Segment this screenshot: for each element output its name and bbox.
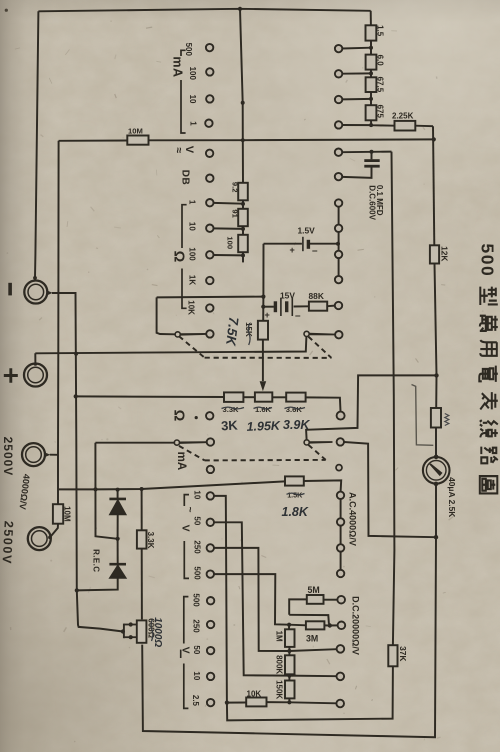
wire 675 bottom to 2.25K	[371, 120, 395, 125]
svg-text:150K: 150K	[275, 680, 284, 699]
diode D2 triangle	[110, 566, 125, 578]
svg-text:1000Ω: 1000Ω	[152, 617, 163, 647]
svg-text:88K: 88K	[309, 291, 324, 301]
contact circle ohm x10	[206, 225, 213, 232]
svg-text:50: 50	[193, 516, 202, 525]
svg-text:10: 10	[188, 95, 197, 104]
svg-text:2500V: 2500V	[0, 520, 16, 565]
contact circle sw2 row1	[335, 199, 342, 206]
svg-text:3.3K: 3.3K	[146, 532, 155, 549]
wire 150K bottom	[288, 698, 290, 702]
bracket ohm ranges	[182, 205, 187, 309]
node mid column	[241, 101, 245, 105]
wire dashed gang link row2	[179, 446, 205, 461]
svg-text:1.6K: 1.6K	[255, 405, 272, 414]
battery 1.5V plate negative	[307, 240, 310, 249]
contact circle AC col 1	[337, 492, 344, 499]
resistor 1.5 body	[366, 25, 377, 40]
wire tap to contact 100mA	[342, 72, 371, 74]
svg-text:50: 50	[192, 645, 201, 654]
wire 3.3K to jack	[141, 549, 143, 620]
resistor 10M body	[127, 136, 148, 145]
svg-text:3M: 3M	[306, 633, 318, 643]
contact circle V-AC wiper	[335, 331, 342, 338]
contact circle AC col 2	[337, 518, 344, 525]
node tap 10mA	[369, 97, 373, 101]
wire 37K to bottom rail	[227, 666, 393, 720]
title char wan	[480, 316, 498, 331]
wire mA wiper row	[95, 442, 175, 444]
bracket DCV ranges	[184, 597, 189, 709]
svg-text:1.8K: 1.8K	[282, 505, 309, 519]
wire 10M to 2500VDC terminal	[50, 524, 58, 538]
meter M inner	[426, 461, 446, 481]
capacitor 0.1MFD bottom lead	[342, 168, 371, 178]
wire tap to contact ohm x1	[213, 202, 243, 205]
svg-text:V: V	[179, 525, 191, 532]
battery 15V plate 1	[274, 301, 277, 312]
resistor 10M (HV dc) body	[53, 504, 63, 524]
terminal 2500VAC lug	[44, 452, 50, 457]
wire battery vertical rail	[262, 244, 264, 321]
svg-text:10: 10	[193, 490, 202, 499]
contact circle DCVL 500	[207, 597, 214, 604]
wire ACV250 bus	[214, 548, 289, 651]
jack plug prong 2	[124, 636, 137, 638]
svg-text:2.5: 2.5	[191, 695, 200, 707]
resistor 10K body	[246, 698, 266, 707]
wire tap to contact ohm x100	[213, 254, 243, 256]
svg-text:675: 675	[376, 105, 385, 119]
switch AC wiper feed	[306, 375, 436, 439]
contact circle sw2 row2	[335, 225, 342, 232]
contact circle sw2 row4	[335, 276, 342, 283]
strike over printed 15K	[248, 323, 250, 345]
wire ACV10 bus	[214, 496, 227, 703]
resistor 675 body	[366, 105, 377, 120]
wire tap to contact ohm x10	[213, 227, 243, 230]
svg-text:mA: mA	[175, 452, 187, 471]
svg-text:10M: 10M	[63, 506, 72, 522]
switch mA wiper pivot	[174, 440, 179, 445]
resistor 100 body	[238, 235, 248, 252]
svg-text:100: 100	[188, 67, 197, 81]
label terminal minus	[8, 283, 12, 296]
wire 800K-150K tap row	[289, 675, 336, 678]
contact circle DCV 2.5	[336, 700, 344, 708]
capacitor 0.1MFD plate 1	[364, 159, 379, 162]
wire 15V battery left	[263, 306, 274, 308]
wire rectifier rail to 1.8K	[58, 481, 285, 489]
node tap 100mA	[369, 71, 373, 75]
wire 10M to ohm-chain column	[149, 138, 434, 141]
wire 10M column vertical	[57, 141, 60, 504]
node meter plus	[434, 455, 439, 460]
label DCV V underline	[180, 650, 182, 658]
svg-text:250: 250	[193, 540, 202, 554]
wire 3.9K to ohm contact right	[306, 397, 341, 411]
svg-text:2.25K: 2.25K	[392, 112, 414, 121]
node plus terminal top	[34, 362, 38, 366]
node battery rail at 15V	[261, 305, 265, 309]
diode D2 cathode bar	[109, 563, 126, 566]
svg-text:10: 10	[188, 222, 197, 231]
title char tu	[480, 476, 498, 493]
diode D1 cathode bar	[109, 498, 126, 501]
wire 6.0 to 67.5	[370, 70, 372, 78]
resistor 37K body	[388, 645, 397, 666]
strike over printed 3.3K	[222, 407, 245, 409]
contact circle DCV 10	[337, 673, 345, 681]
battery 15V plate 3	[285, 301, 288, 312]
node jack prong 1	[129, 622, 133, 626]
node 2500VDC stub	[48, 536, 52, 540]
switch V-AC wiper blade	[309, 333, 335, 336]
switch AC wiper blade	[310, 441, 333, 444]
wire common column down to 37K	[392, 152, 395, 646]
node common at plus rail	[74, 352, 78, 356]
battery 1.5V plate positive	[302, 237, 304, 251]
node 3M right	[328, 623, 332, 627]
svg-text:1.95K: 1.95K	[246, 419, 281, 434]
contact circle DCV 500	[337, 596, 345, 604]
wire battery 1.5V to chain column	[310, 243, 338, 245]
contact circle DCV 250	[338, 622, 346, 630]
wire 1M-800K tap row	[289, 649, 336, 651]
svg-text:3.9K: 3.9K	[283, 418, 310, 432]
svg-text:15V: 15V	[280, 290, 295, 300]
wire AC col link c	[340, 552, 342, 570]
svg-text:+: +	[290, 245, 295, 255]
svg-text:10K: 10K	[187, 300, 196, 315]
resistor 9.2 body	[238, 183, 248, 201]
svg-text:10: 10	[192, 671, 201, 680]
svg-text:3K: 3K	[221, 417, 239, 433]
wire linking contact column	[338, 207, 340, 225]
strike over printed 1.5K	[287, 493, 305, 495]
terminal minus outer	[24, 281, 47, 304]
resistor 1.95K body	[255, 392, 272, 401]
svg-text:–: –	[295, 310, 301, 321]
resistor 1.8K body	[285, 476, 304, 485]
svg-text:1: 1	[188, 200, 197, 205]
contact circle cap top	[335, 149, 342, 156]
contact circle AC col 3	[337, 544, 344, 551]
resistor 2.25K body	[395, 121, 416, 131]
contact circle AC wiper	[337, 438, 344, 445]
wire 3.3K branch	[141, 489, 143, 530]
wire dashed gang link AC	[308, 445, 325, 460]
terminal 2500VAC outer	[22, 443, 45, 466]
node meter minus	[434, 482, 439, 487]
terminal plus outer	[24, 364, 47, 387]
wire top junction down the ohm-chain column	[240, 9, 243, 183]
resistor 3K body	[224, 392, 243, 402]
contact circle 88K row	[335, 302, 342, 309]
node tap ohm x1	[241, 202, 245, 206]
svg-text:R.E.C: R.E.C	[92, 549, 101, 572]
contact circle DB row	[206, 175, 213, 182]
node common at rectifier bottom	[75, 588, 79, 592]
capacitor 0.1MFD plate 2	[364, 165, 379, 168]
wire 1.95K to 3.9K	[272, 396, 286, 398]
resistor 12K body	[430, 245, 439, 263]
svg-text:+: +	[265, 310, 270, 320]
contact circle ohm wiper	[206, 330, 213, 337]
svg-text:≈: ≈	[172, 147, 184, 153]
wire ACV500 bus	[214, 574, 289, 625]
svg-text:1M: 1M	[275, 631, 284, 642]
contact circle DCVL 250	[207, 621, 214, 628]
node divider 800K-150K	[287, 674, 291, 678]
contact circle chain 1	[335, 121, 342, 128]
contact circle AC col 4	[337, 570, 344, 577]
jack plug bar	[123, 624, 125, 639]
wire 10K row	[227, 702, 246, 704]
svg-text:12K: 12K	[440, 246, 450, 261]
wire shunt to meter	[435, 428, 437, 458]
contact circle mA 10	[206, 95, 213, 102]
switch ohm wiper blade	[181, 333, 207, 336]
node meter return branch	[434, 535, 438, 539]
wire shunt row	[76, 395, 224, 398]
wire AC col link a	[340, 499, 342, 518]
contact circle ohm row left	[206, 412, 213, 419]
svg-text:100: 100	[188, 247, 197, 261]
svg-text:5M: 5M	[308, 585, 320, 595]
contact circle DCVL 10	[207, 673, 214, 680]
wire main bus lower	[142, 484, 436, 737]
contact circle DCVL 50	[207, 647, 214, 654]
wire 5M loop to 3M right	[289, 615, 329, 624]
node column at 10M wire	[241, 138, 245, 142]
node jack prong 2	[129, 635, 133, 639]
svg-text:2500V: 2500V	[1, 437, 15, 477]
switch V-AC wiper pivot	[304, 331, 309, 336]
svg-text:10K: 10K	[247, 689, 262, 698]
resistor 7.5K body	[258, 321, 268, 340]
svg-text:500: 500	[193, 566, 202, 580]
node minus terminal top	[33, 276, 37, 280]
resistor 150K body	[285, 681, 295, 699]
terminal 2500VDC outer	[28, 527, 51, 550]
contact circle ACV 250	[207, 544, 214, 551]
node cap tap	[370, 150, 374, 154]
title char yong	[480, 340, 497, 356]
contact circle chain 10	[335, 96, 342, 103]
node divider 1M-800K	[287, 649, 291, 653]
contact circle DCVL 2.5	[207, 699, 214, 706]
resistor 91 body	[238, 209, 248, 226]
resistor 88K body	[309, 302, 327, 311]
terminal minus lug	[47, 290, 53, 295]
wire 10M top feed	[59, 140, 128, 142]
wire plus terminal stub up	[34, 353, 36, 364]
contact circle sw2 row3	[335, 251, 342, 258]
contact circle mA wiper	[207, 438, 214, 445]
title char dian	[479, 366, 498, 382]
wire 15V to 88K	[294, 305, 309, 307]
wire plus rail to V-AC wiper	[35, 336, 306, 353]
wire 2.25K to main bus	[415, 125, 433, 128]
battery 15V plate 4	[291, 298, 293, 316]
contact circle chain 500	[335, 45, 342, 52]
svg-text:D.C.600V: D.C.600V	[368, 185, 377, 220]
wire 10K to divider bottom and contact	[267, 702, 337, 703]
meter M outer	[423, 457, 450, 484]
node top-left junction	[238, 7, 242, 11]
wire left bus to minus terminal	[35, 11, 38, 277]
contact circle ACV 10	[207, 492, 214, 499]
wire linking contact column b	[338, 232, 340, 251]
bracket mA ranges	[181, 50, 186, 133]
wire ohm wiper feed down	[157, 297, 175, 334]
wire 100 bottom stub	[242, 252, 244, 262]
wire main bus upper	[433, 126, 434, 245]
capacitor 0.1MFD top lead	[371, 152, 373, 160]
node bus AC branch	[434, 373, 438, 377]
strike over printed 3.6K	[285, 407, 306, 409]
meter needle	[429, 463, 442, 476]
jack plug prong 1	[124, 624, 137, 626]
title char lu	[481, 447, 498, 464]
wire linking contact column c	[338, 258, 340, 276]
title char biao	[480, 392, 498, 409]
wire tap to contact 1mA	[342, 124, 371, 126]
contact circle chain 100	[335, 70, 342, 77]
wire tap to contact 10mA	[342, 98, 371, 101]
wire battery 1.5V top	[264, 243, 302, 245]
switch mA wiper blade	[180, 441, 207, 444]
node ACV10 bus bottom	[225, 701, 229, 705]
wire minus terminal to common vertical	[52, 293, 123, 632]
resistor 1M body	[285, 629, 295, 647]
node jack feed	[121, 629, 125, 633]
svg-text:1K: 1K	[188, 275, 197, 285]
terminal plus inner	[28, 367, 44, 383]
value squiggle at meter shunt	[445, 414, 449, 426]
node 10M wire at main bus	[432, 137, 436, 141]
svg-text:DB: DB	[180, 170, 191, 185]
wire battery rail horizontal	[157, 296, 263, 299]
wire 91 to 100	[242, 226, 244, 235]
strike over printed 1.6K	[254, 407, 273, 409]
svg-text:37K: 37K	[398, 646, 408, 661]
contact circle DCV 50	[337, 645, 345, 653]
diode D1 lead top	[117, 490, 119, 499]
svg-text:1.5V: 1.5V	[298, 225, 316, 235]
contact circle spare left	[207, 466, 214, 473]
wire 5M right to contact	[324, 599, 338, 601]
node battery tap on column	[336, 242, 340, 246]
resistor 6.0 body	[366, 55, 377, 70]
wire AC col link b	[340, 526, 342, 545]
contact circle ohm right	[337, 412, 345, 420]
resistor 3.3K body	[137, 530, 147, 548]
svg-text:10M: 10M	[128, 127, 143, 136]
svg-text:100: 100	[226, 236, 235, 249]
wire 9.2 to 91	[242, 200, 244, 209]
svg-text:A.C.4000Ω/V: A.C.4000Ω/V	[348, 492, 358, 546]
contact circle ohm x1	[206, 199, 213, 206]
contact circle mA 500	[206, 44, 213, 51]
diode D1 lead bottom	[117, 514, 119, 539]
pencil correction loop at shunt	[412, 385, 434, 446]
wire 3M right	[324, 624, 337, 626]
svg-text:250: 250	[192, 619, 201, 633]
terminal minus inner	[28, 284, 44, 300]
contact circle ACV 500	[207, 570, 214, 577]
svg-text:67.5: 67.5	[376, 77, 385, 93]
resistor 3.9K body	[286, 393, 305, 402]
title char xian	[480, 420, 498, 437]
svg-text:D.C.20000Ω/V: D.C.20000Ω/V	[351, 596, 361, 655]
wire 1.5 to 6.0	[370, 41, 372, 55]
node common at 3K row	[74, 394, 78, 398]
svg-text:40μA 2.5K: 40μA 2.5K	[447, 477, 457, 517]
svg-text:500: 500	[478, 244, 498, 278]
label terminal plus	[4, 368, 18, 383]
svg-text:–: –	[312, 246, 318, 257]
wire D2 to common	[77, 578, 118, 591]
svg-text:mA: mA	[171, 56, 185, 77]
svg-text:Ω: Ω	[170, 410, 186, 422]
wire 2500VAC to 10M column	[50, 454, 58, 456]
wire dashed gang link row1	[179, 336, 205, 358]
jack body	[137, 620, 147, 642]
contact circle ohm x100	[206, 251, 213, 258]
wire 1M to 800K	[288, 647, 290, 655]
node tap ohm x10	[241, 227, 245, 231]
svg-text:9.2: 9.2	[231, 182, 240, 193]
contact circle mA 1	[205, 120, 212, 127]
resistor meter-shunt body	[431, 408, 441, 428]
wire 1.8K to AC column	[304, 480, 341, 491]
node tap 1mA	[369, 123, 373, 127]
resistor 67.5 body	[366, 77, 377, 92]
node rail at mA feed	[93, 487, 97, 491]
terminal 2500VAC inner	[26, 447, 42, 463]
wire main bus middle	[435, 264, 437, 409]
node tap 500mA	[369, 46, 373, 50]
svg-text:Ω: Ω	[171, 251, 187, 263]
wire dashed gang row2 horizontal	[205, 459, 326, 462]
bracket ACV ranges	[184, 495, 189, 579]
resistor 5M body	[307, 595, 324, 604]
svg-text:91: 91	[231, 209, 240, 218]
wire into multiplier chain	[370, 11, 372, 25]
contact circle spare right	[336, 465, 342, 471]
wire ACV50 bus	[214, 522, 289, 675]
svg-text:~: ~	[184, 507, 195, 513]
contact circle ACV 50	[207, 519, 214, 526]
svg-text:6.0: 6.0	[376, 55, 385, 67]
switch AC wiper pivot	[304, 440, 309, 445]
resistor 3M body	[306, 621, 325, 629]
node rectifier mid	[116, 537, 120, 541]
wire 67.5 to 675	[370, 92, 372, 105]
wire dashed gang link V-AC	[308, 337, 331, 358]
svg-text:1: 1	[189, 121, 198, 126]
contact circle ohm 10K	[206, 304, 213, 311]
wire top bus	[38, 9, 370, 12]
diode D2 lead top	[117, 539, 119, 564]
wire tap to contact 500mA	[342, 47, 371, 50]
wire 5M loop left	[289, 599, 307, 614]
terminal 2500VDC inner	[32, 531, 48, 547]
arrow onto shunt row	[260, 381, 267, 391]
node battery rail at ohm feed	[261, 295, 265, 299]
